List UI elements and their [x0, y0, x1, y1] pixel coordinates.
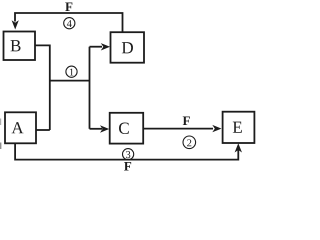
box B — [4, 32, 36, 61]
wire arrow into C left — [90, 128, 103, 130]
box D — [111, 32, 145, 63]
wire vertical branch to D and C — [89, 47, 91, 129]
label 3 circled — [123, 149, 134, 160]
wire D top to B top feedback — [15, 13, 123, 32]
label F middle — [183, 116, 190, 125]
wire A right to junction — [36, 129, 50, 131]
wire C right to E with arrow — [143, 128, 213, 130]
wire A bottom to E bottom feedback — [15, 143, 238, 159]
box E — [223, 112, 255, 143]
label 4 circled — [64, 18, 75, 29]
scan smudge left edge upper — [0, 119, 1, 126]
wire junction horizontal — [50, 80, 90, 82]
arrowhead into E bottom — [235, 143, 242, 152]
arrowhead into C — [100, 125, 109, 132]
label F bottom — [124, 162, 131, 171]
arrowhead into D — [101, 43, 110, 50]
wire B right to junction — [35, 45, 50, 130]
arrowhead into E left — [212, 125, 221, 132]
wire arrow into D left — [90, 46, 103, 48]
label 2 circled — [183, 136, 196, 149]
label F top — [65, 2, 72, 11]
box C — [110, 113, 144, 144]
arrowhead into B top — [12, 20, 19, 29]
scan smudge left edge lower — [0, 143, 1, 150]
label 1 circled — [66, 66, 77, 77]
box A — [5, 112, 36, 143]
